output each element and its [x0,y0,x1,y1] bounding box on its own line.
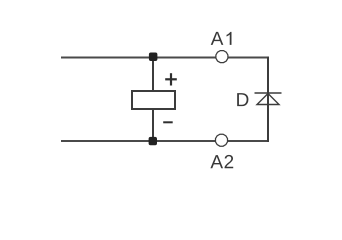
diode D cathode bar [255,92,282,94]
plus polarity mark [165,73,177,85]
wire coil vertical [152,58,154,142]
label A1 [211,32,232,45]
terminal A1 [216,51,228,63]
wire top horizontal [61,57,268,59]
relay coil K1 box [132,91,175,109]
junction node bottom [149,137,157,145]
label D [237,93,248,106]
label A2 [210,155,233,168]
terminal A2 [216,134,228,146]
minus polarity mark [163,121,173,123]
wire bottom horizontal [61,140,268,142]
junction node top [149,53,158,62]
wire right vertical (diode branch) [267,57,269,143]
diode D triangle [257,94,279,105]
